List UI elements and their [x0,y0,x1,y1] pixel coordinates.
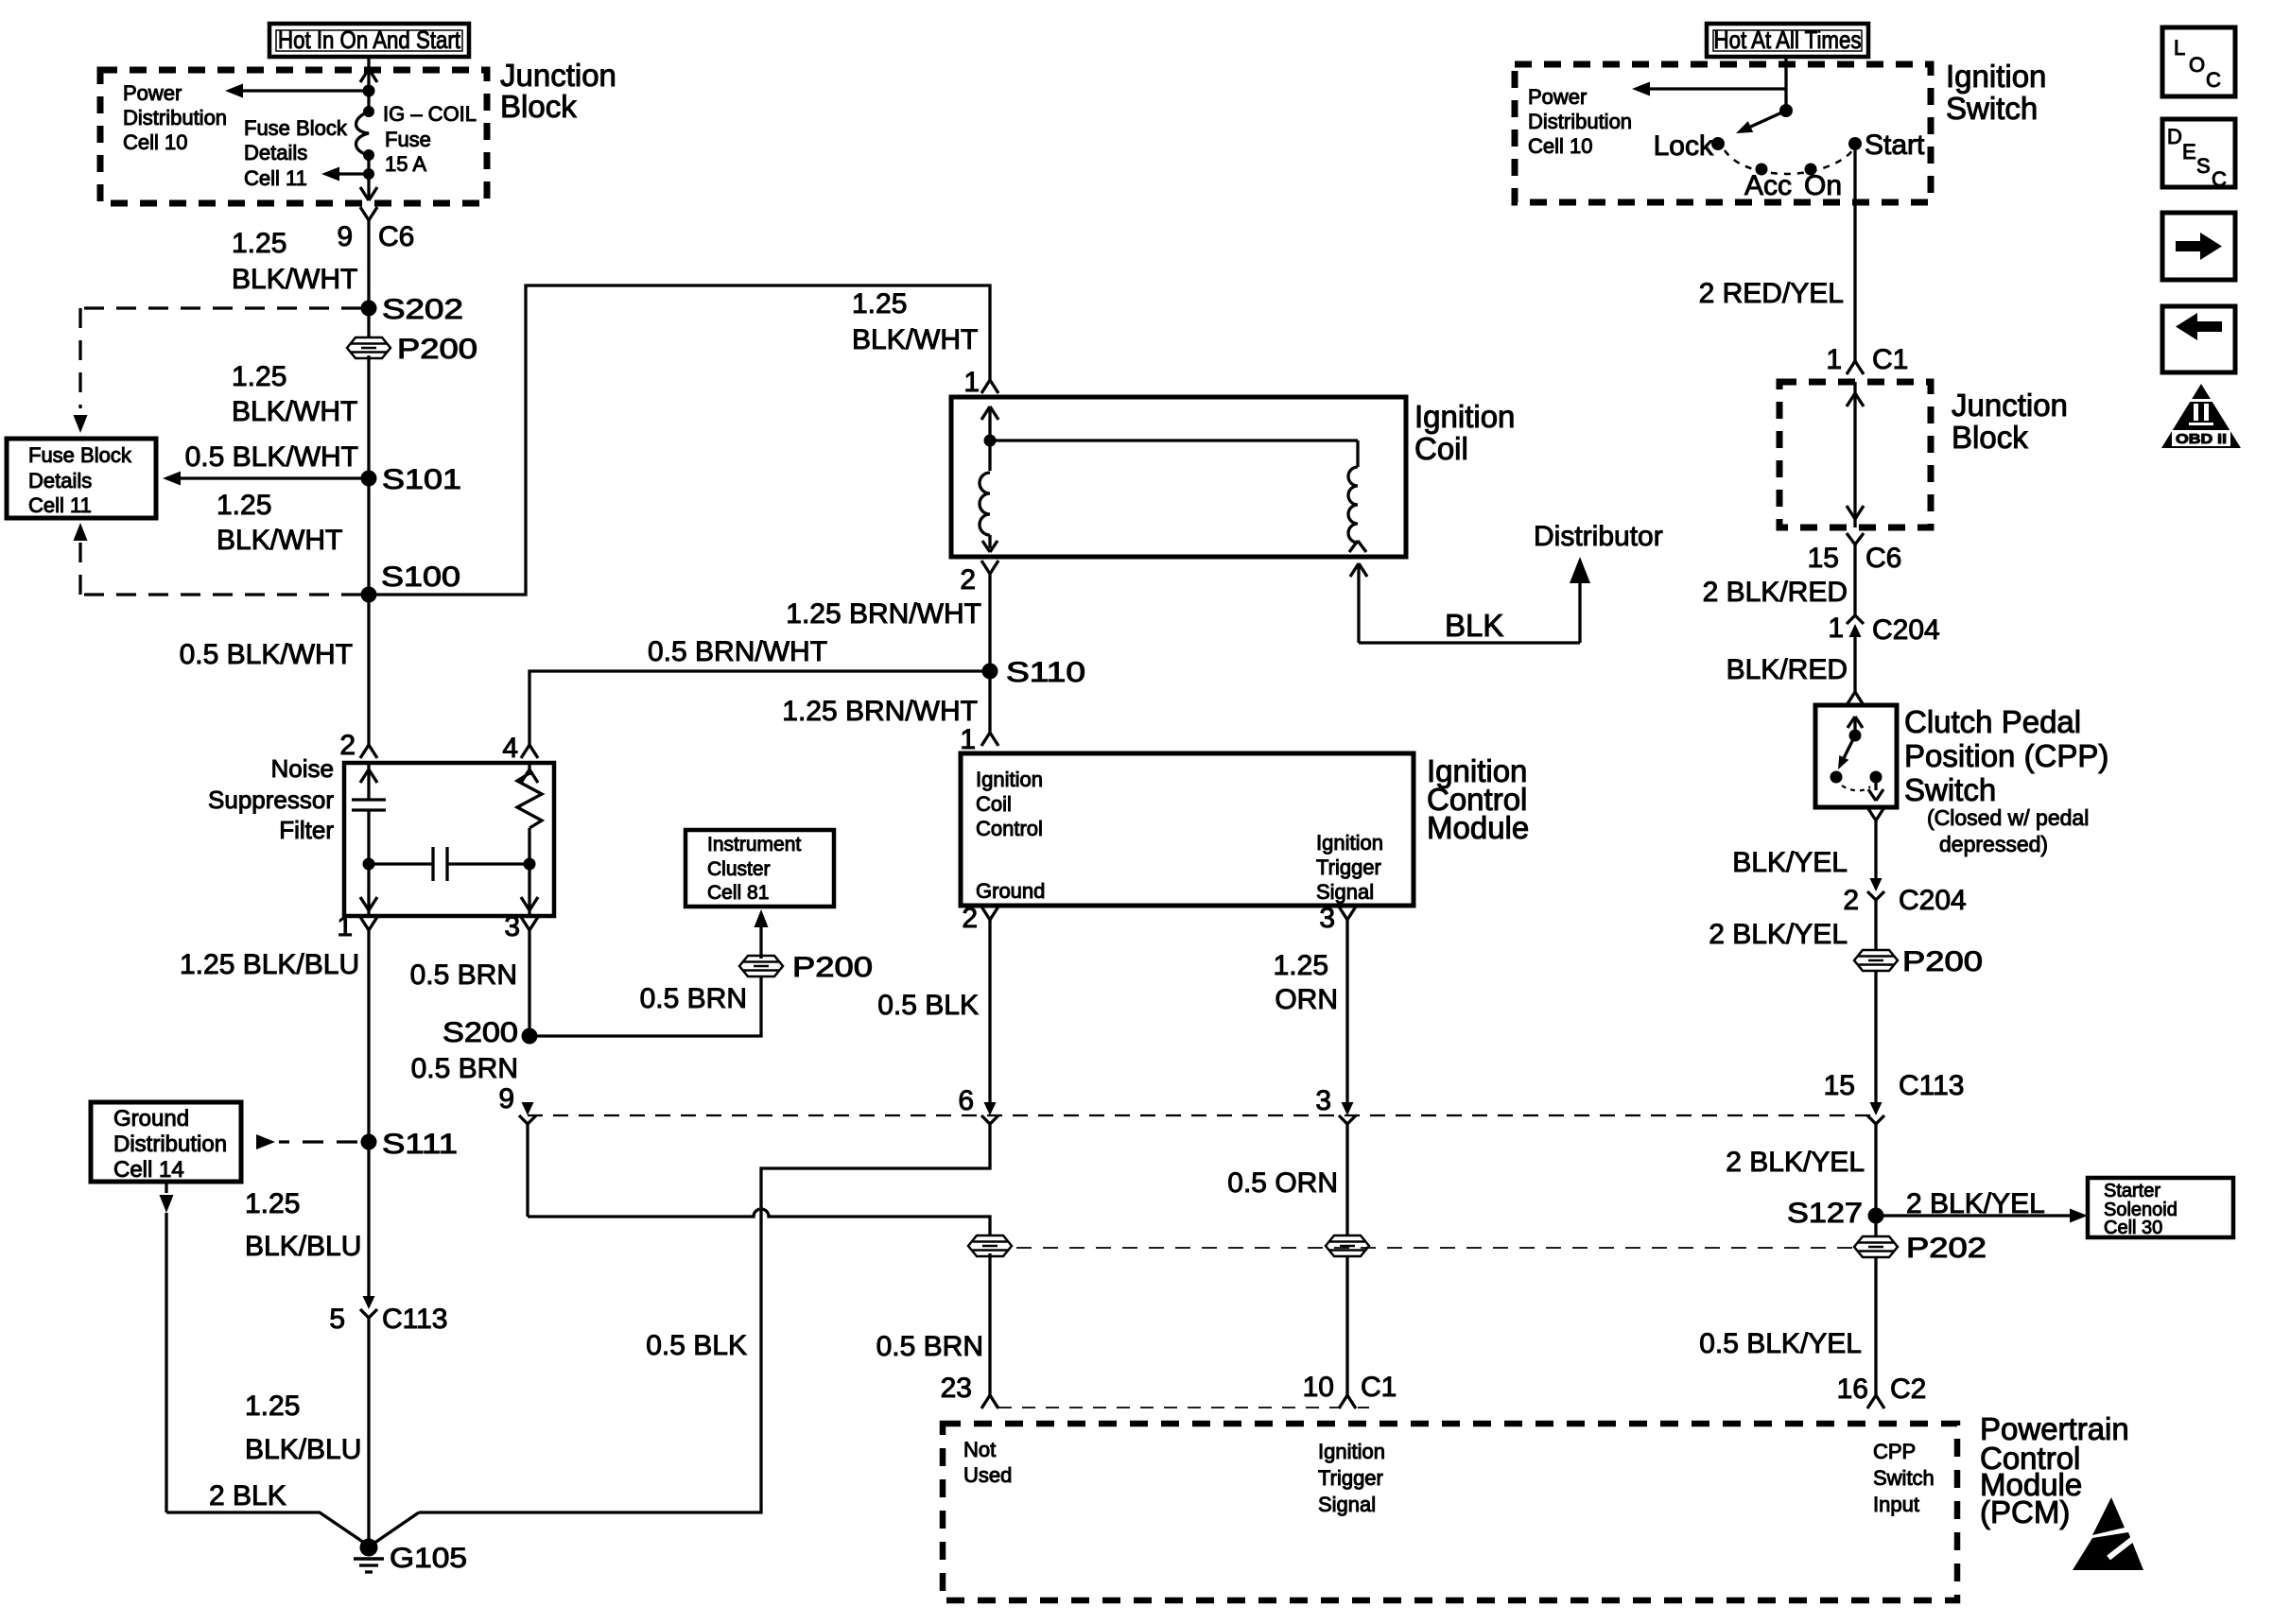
svg-text:16: 16 [1837,1373,1868,1405]
C113 connector row (dashed) [528,1114,1876,1116]
svg-text:S110: S110 [1006,657,1085,688]
filter internal: coupling capacitor [369,862,433,865]
svg-text:Hot At All Times: Hot At All Times [1714,26,1862,54]
svg-text:BLK/WHT: BLK/WHT [852,324,978,355]
svg-text:3: 3 [504,911,520,942]
svg-text:Filter: Filter [279,816,334,844]
splice S110 [982,664,998,680]
wire: P200 to S101 [367,355,370,478]
svg-text:0.5 BRN: 0.5 BRN [410,959,517,991]
svg-text:Ground: Ground [976,879,1045,903]
arrow S127 to starter solenoid [1876,1214,2073,1217]
svg-text:P200: P200 [1902,946,1983,977]
wire: trigger to PCM pin 10 [1345,1123,1348,1395]
noise suppressor filter pin 1 [360,917,369,930]
ignition control module box [961,753,1414,906]
svg-text:Cell 10: Cell 10 [1528,134,1592,158]
ground distribution box [91,1102,241,1182]
noise suppressor filter pin 3 [521,917,529,930]
svg-text:Distribution: Distribution [1528,110,1632,133]
splice S202 [361,301,377,317]
svg-text:2 BLK/RED: 2 BLK/RED [1703,577,1848,608]
svg-text:Start: Start [1865,130,1925,161]
svg-text:Ground: Ground [113,1106,189,1132]
svg-text:Ignition: Ignition [1316,831,1383,855]
arrow down to connector C6 [360,187,369,200]
svg-text:G105: G105 [390,1543,467,1574]
wire: ICM pin 3 trigger down [1345,920,1348,1103]
wire 0.5 BRN/WHT from S110 to filter pin 4 [529,671,990,745]
svg-text:2 BLK/YEL: 2 BLK/YEL [1906,1188,2045,1219]
PCM pin 10 C1 [1339,1395,1347,1408]
arrow to Fuse Block Details Cell 11 [363,168,374,180]
junction block (right) dashed box [1779,382,1931,527]
wire: Start down to C1 [1853,150,1856,361]
svg-text:Signal: Signal [1318,1493,1376,1516]
coil internal: secondary winding [990,439,1358,441]
svg-text:1.25: 1.25 [245,1188,300,1219]
svg-text:Fuse: Fuse [385,128,431,151]
svg-text:BLK/WHT: BLK/WHT [217,525,342,556]
connector 2 C204 [1870,878,1883,891]
svg-text:9: 9 [337,221,353,252]
svg-text:Block: Block [500,89,577,124]
noise suppressor filter pin 4 [521,745,529,758]
power feed box 'Hot At All Times' [1707,24,1868,57]
contact Lock [1711,137,1725,150]
svg-text:Trigger: Trigger [1316,855,1381,879]
svg-text:5: 5 [329,1304,345,1335]
svg-text:Cell 30: Cell 30 [2104,1218,2162,1238]
splice S200 [522,1028,538,1045]
svg-text:0.5 BLK/WHT: 0.5 BLK/WHT [185,441,358,473]
svg-text:Cell 14: Cell 14 [113,1157,184,1183]
svg-text:1.25 BLK/BLU: 1.25 BLK/BLU [180,949,359,980]
connector 6 at C113 row [984,1102,997,1115]
junction block (left) dashed box [100,70,487,203]
svg-text:Not: Not [963,1438,996,1461]
svg-text:Signal: Signal [1316,880,1374,904]
svg-text:2 RED/YEL: 2 RED/YEL [1699,278,1844,309]
svg-text:15 A: 15 A [385,152,426,176]
svg-text:On: On [1804,170,1842,201]
svg-text:0.5 BRN: 0.5 BRN [640,983,747,1014]
svg-text:Switch: Switch [1904,772,1996,807]
svg-text:S202: S202 [382,294,463,325]
svg-text:IG – COIL: IG – COIL [383,102,477,126]
svg-text:(Closed w/ pedal: (Closed w/ pedal [1927,805,2089,830]
C1 connector row (dashed) [998,1407,1338,1408]
svg-text:C6: C6 [1865,543,1901,574]
svg-text:9: 9 [498,1083,514,1114]
svg-text:Details: Details [28,469,92,492]
contact On [1805,164,1817,176]
svg-text:1: 1 [1828,613,1844,644]
svg-text:1: 1 [963,367,980,398]
svg-text:0.5 ORN: 0.5 ORN [1227,1167,1338,1199]
connector 9 at C113 row [522,1102,534,1115]
node: power distribution tap [363,85,375,97]
wire: C113 to G105 [367,1318,370,1547]
connector 3 at C113 row [1342,1102,1354,1115]
svg-text:P202: P202 [1906,1233,1987,1264]
wire: filter pin 1 down left trunk [367,930,370,1142]
svg-text:Lock: Lock [1654,130,1714,162]
svg-text:Cell 81: Cell 81 [707,882,769,904]
svg-text:1.25: 1.25 [217,490,271,521]
ground G105 [360,1539,378,1557]
svg-text:C1: C1 [1872,344,1908,375]
svg-text:4: 4 [502,733,518,764]
svg-text:1: 1 [1826,344,1842,375]
svg-text:2: 2 [339,730,356,761]
svg-text:Cell 11: Cell 11 [28,493,92,517]
ignition control module pin 2 [981,907,990,920]
svg-text:Distributor: Distributor [1534,521,1663,552]
svg-text:Ignition: Ignition [1414,399,1515,434]
fuse block details box (left) [7,439,156,518]
in-line connector P200 (left trunk) [367,308,370,340]
svg-text:Block: Block [1952,420,2028,455]
svg-text:Junction: Junction [500,58,616,93]
ignition switch wiper arm [1744,111,1786,130]
wire: coil pin 2 to ICM pin 1 [988,574,991,733]
wire 2 BLK from ground distribution [165,1182,167,1193]
ignition coil box [951,397,1406,557]
wire through junction block [1853,382,1856,527]
powertrain control module dashed box [943,1424,1957,1600]
contact Start [1848,137,1862,150]
svg-text:0.5 BLK/YEL: 0.5 BLK/YEL [1699,1328,1862,1359]
connector 9 C6 [360,207,369,220]
svg-text:S101: S101 [382,464,461,495]
svg-text:C2: C2 [1890,1373,1926,1405]
switch travel arc (dashed) [1725,150,1852,174]
svg-text:Ignition: Ignition [1318,1440,1385,1463]
svg-text:O: O [2189,53,2205,77]
icon LOC box [2162,27,2235,96]
contact Acc [1756,164,1768,176]
connector 1 C204 [1847,615,1864,624]
ignition control module pin 3 [1339,907,1347,920]
svg-text:0.5 BLK: 0.5 BLK [877,990,979,1021]
svg-text:15: 15 [1808,543,1839,574]
splice on 0.5 BRN wire [968,1235,1012,1256]
svg-text:P200: P200 [792,952,873,983]
splice S101 [361,471,377,487]
svg-text:OBD II: OBD II [2176,431,2227,447]
instrument cluster box [685,830,834,907]
wire: S100 to ignition coil pin 1 [369,285,990,595]
PCM pin 16 C2 [1867,1395,1876,1408]
ignition coil pin 1 [981,380,990,393]
svg-text:Used: Used [963,1463,1012,1487]
svg-text:2: 2 [960,564,976,596]
splice row (dashed) [990,1247,1876,1249]
svg-text:E: E [2182,140,2196,164]
svg-text:C: C [2212,167,2227,191]
connector 1 C1 [1847,361,1855,374]
svg-text:Module: Module [1427,810,1529,845]
svg-text:Power: Power [1528,85,1587,109]
ignition switch dashed box [1515,64,1931,202]
svg-text:10: 10 [1303,1372,1334,1403]
svg-text:Cell 11: Cell 11 [244,166,307,190]
svg-text:Coil: Coil [1414,431,1468,466]
svg-text:Hot In On And Start: Hot In On And Start [278,26,461,54]
CPP switch internals [1848,717,1855,728]
PCM pin 23 [981,1395,990,1408]
node: feed tap [1779,104,1793,117]
svg-text:0.5 BLK/WHT: 0.5 BLK/WHT [180,639,353,670]
clutch pedal position switch pin (top) [1847,692,1855,705]
wire: S111 down to C113 [367,1142,370,1299]
svg-text:0.5 BRN: 0.5 BRN [411,1053,518,1084]
starter solenoid box [2088,1178,2233,1237]
arrow to Power Distribution Cell 10 [238,89,369,92]
svg-text:0.5 BRN/WHT: 0.5 BRN/WHT [648,636,827,667]
svg-text:S100: S100 [381,561,460,593]
clutch pedal position switch box [1815,705,1897,807]
dashed branch S202 to Fuse Block Details [80,306,361,309]
svg-text:BLK/WHT: BLK/WHT [232,396,357,427]
wire: left trunk C6 to S202 [367,220,370,308]
svg-text:C204: C204 [1899,885,1967,916]
wire: P202 to PCM pin 16 [1874,1257,1877,1395]
wire: CPP to C204-2 [1874,821,1877,889]
svg-text:D: D [2167,125,2182,148]
wire: feed into junction block [367,57,370,112]
svg-text:C: C [2206,68,2221,92]
splice on trigger wire at splice row [1326,1235,1369,1256]
clutch pedal position switch pin (bottom) [1867,807,1876,821]
splice S100 [361,587,377,603]
svg-text:15: 15 [1824,1070,1855,1101]
svg-text:Switch: Switch [1873,1466,1935,1490]
svg-text:1.25: 1.25 [232,361,286,392]
svg-text:C113: C113 [1899,1070,1965,1101]
svg-text:Coil: Coil [976,792,1012,816]
wire: S101 to S100 [367,478,370,595]
svg-text:S111: S111 [382,1129,458,1160]
svg-text:Junction: Junction [1952,388,2068,423]
svg-text:S127: S127 [1787,1198,1863,1229]
wire: fuse to junction block edge [367,155,370,200]
connector 15 C6 [1847,533,1855,544]
svg-text:depressed): depressed) [1939,832,2048,856]
svg-text:C204: C204 [1872,614,1940,646]
splice S111 [361,1134,377,1150]
svg-text:BLK: BLK [1445,608,1503,643]
in-line connector P200 (right) [1854,950,1898,971]
svg-text:0.5 BLK: 0.5 BLK [646,1330,747,1361]
coil high tension terminal to distributor [1350,563,1359,577]
icon arrow right box [2162,213,2235,280]
svg-text:L: L [2174,36,2185,60]
svg-text:CPP: CPP [1873,1440,1916,1463]
svg-text:2 BLK/YEL: 2 BLK/YEL [1726,1147,1865,1178]
svg-text:2: 2 [962,903,978,934]
wire 0.5 BRN from 9 to PCM pin 23 [526,1123,529,1217]
svg-text:BLK/RED: BLK/RED [1726,654,1848,685]
wire: left trunk S100 down to filter [367,595,370,745]
wire: C204 to P200 [1874,899,1877,953]
svg-text:Input: Input [1873,1493,1919,1516]
ESD warning symbol [2092,1497,2125,1535]
svg-text:Distribution: Distribution [123,106,227,130]
svg-text:1.25: 1.25 [852,288,907,320]
power feed box 'Hot In On And Start' [269,24,469,57]
svg-text:Starter: Starter [2104,1181,2160,1201]
ignition coil pin 2 [981,561,990,574]
svg-text:Instrument: Instrument [707,834,801,855]
svg-text:Position (CPP): Position (CPP) [1904,738,2108,773]
svg-text:1.25 BRN/WHT: 1.25 BRN/WHT [782,696,978,727]
svg-text:BLK/BLU: BLK/BLU [245,1434,361,1465]
dashed branch to ground distribution [279,1140,357,1143]
icon OBD II triangle [2161,384,2241,448]
svg-text:Control: Control [976,817,1043,840]
svg-text:BLK/YEL: BLK/YEL [1732,847,1848,878]
svg-text:1: 1 [960,724,976,755]
arrow to Power Distribution Cell 10 [1645,87,1786,90]
svg-text:BLK/BLU: BLK/BLU [245,1231,361,1262]
svg-text:Switch: Switch [1946,91,2038,126]
dashed branch S100 to Fuse Block Details [80,593,361,596]
svg-text:Fuse Block: Fuse Block [28,443,132,467]
svg-text:Trigger: Trigger [1318,1466,1383,1490]
filter internal: capacitor to ground leg [367,763,370,800]
svg-text:C1: C1 [1361,1372,1397,1403]
splice S127 [1868,1208,1884,1224]
wire: C204 to CPP switch [1853,631,1856,692]
wire: ICM pin 2 (ground) down [988,920,991,1103]
noise suppressor filter pin 2 [360,745,369,758]
svg-text:C6: C6 [378,221,414,252]
wire 2 BLK to G105 [166,1512,367,1545]
svg-text:2 BLK/YEL: 2 BLK/YEL [1709,919,1848,950]
svg-text:6: 6 [958,1085,974,1116]
svg-text:ORN: ORN [1275,984,1338,1015]
svg-text:2 BLK: 2 BLK [209,1480,286,1512]
svg-text:BLK/WHT: BLK/WHT [232,264,357,295]
arrow S101 to Fuse Block Details [180,476,369,479]
wire: hot feed into ignition switch [1784,57,1787,111]
wire: filter pin 3 to S200 [528,930,530,1036]
svg-text:Noise: Noise [271,754,334,783]
svg-text:S200: S200 [442,1017,518,1048]
svg-text:Fuse Block: Fuse Block [244,116,348,140]
svg-text:Ignition: Ignition [976,768,1043,791]
icon arrow left box [2162,306,2235,372]
svg-text:1.25: 1.25 [232,228,286,259]
wire: P200 to C113 [1874,971,1877,1103]
svg-text:1: 1 [337,911,353,942]
svg-text:Suppressor: Suppressor [208,786,334,814]
svg-text:S: S [2196,154,2211,178]
wire: ground path to G105 [419,1123,990,1512]
svg-text:2: 2 [1843,885,1859,916]
svg-text:Cluster: Cluster [707,858,771,880]
svg-text:Cell 10: Cell 10 [123,130,187,154]
svg-text:1.25 BRN/WHT: 1.25 BRN/WHT [786,598,981,630]
svg-text:Details: Details [244,141,307,164]
svg-text:1.25: 1.25 [245,1391,300,1422]
svg-text:P200: P200 [397,334,477,365]
svg-text:(PCM): (PCM) [1980,1494,2070,1529]
svg-text:23: 23 [941,1373,972,1404]
svg-text:Ignition: Ignition [1946,59,2046,94]
svg-text:0.5 BRN: 0.5 BRN [876,1331,983,1362]
arrow into instrument cluster [759,924,762,959]
wire: S200 branch to instrument cluster [529,974,761,1036]
filter internal: resistor leg [528,763,530,775]
svg-text:3: 3 [1319,903,1335,934]
noise suppressor filter box [344,763,554,916]
svg-text:Clutch Pedal: Clutch Pedal [1904,704,2081,739]
ignition control module pin 1 [981,733,990,746]
svg-text:Distribution: Distribution [113,1132,227,1157]
wire: C113 to S127 [1874,1123,1877,1239]
svg-text:C113: C113 [382,1304,448,1335]
in-line connector P202 [1854,1236,1898,1257]
svg-text:3: 3 [1315,1085,1331,1116]
fuse IG-COIL 15 A [363,106,374,117]
svg-text:1.25: 1.25 [1274,950,1328,981]
connector 15 C113 [1870,1102,1883,1115]
connector 5 C113 (left trunk) [363,1296,375,1309]
in-line connector P200 (instrument cluster) [759,959,762,974]
icon DESC box [2162,119,2235,187]
arrow up to Hot In On And Start [360,69,369,82]
coil internal: primary winding [988,408,991,471]
svg-text:Power: Power [123,81,182,105]
